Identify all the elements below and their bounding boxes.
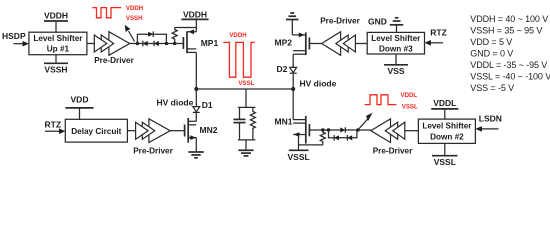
node junction rail left [194,87,198,91]
waveform switch node VDDH/VSSL (red) [223,42,255,77]
node junction at network input [136,42,139,45]
diode series 1 (main line, points left) [143,41,148,46]
svg-text:MN2: MN2 [200,125,218,135]
svg-text:Delay Circuit: Delay Circuit [71,127,121,136]
wire resistor return to source [299,144,323,146]
level shifter U2 box [418,119,475,143]
level shifter U3 box [367,32,424,54]
wire MN1 source to VSSL [298,135,300,151]
svg-text:Pre-Driver: Pre-Driver [373,147,413,156]
node junction at network output (bottom) [356,128,359,131]
resistor MN1 gate pull-down [320,130,325,145]
svg-text:VSSL: VSSL [238,80,254,87]
svg-text:MP1: MP1 [201,38,219,48]
wire rail to MN1 drain [292,89,294,120]
node junction at network output [165,42,168,45]
svg-text:VDDL = -35 ~ -95 V: VDDL = -35 ~ -95 V [470,60,547,70]
wire MP2 drain to D2 [292,54,294,67]
svg-text:LSDN: LSDN [479,113,502,123]
transistor MN2 (NMOS) [184,125,186,137]
ground symbol above MP2 [286,19,299,21]
transistor MN1 (NMOS, mirrored) [293,119,306,121]
power VSSL tap below U2 [444,143,446,155]
ground symbol below MN2 [188,151,204,153]
wire U1 output to pre-driver [87,43,95,45]
wire MP2 gate to pre-driver [309,43,321,45]
level shifter U1 box [29,32,87,55]
buffer pre-driver MN2 large [149,119,170,143]
node junction at network input (bottom) [327,128,330,131]
svg-text:VDDH: VDDH [126,5,143,12]
svg-text:Up #1: Up #1 [47,45,70,54]
node junction rail right [291,87,295,91]
svg-text:VSSH: VSSH [126,15,143,22]
wire diode lower branch [329,130,357,138]
svg-text:VDDH = 40 ~ 100 V: VDDH = 40 ~ 100 V [470,14,548,24]
wire arrow pointing to waveform [129,31,135,42]
svg-text:Pre-Driver: Pre-Driver [133,147,173,156]
buffer pre-driver stage 2 [101,35,114,52]
svg-text:D1: D1 [202,100,213,110]
svg-text:Pre-Driver: Pre-Driver [320,17,360,26]
svg-text:HV diode: HV diode [157,97,194,107]
waveform gate signal VDDL/VSSL (red) [365,95,397,105]
svg-text:VSSL = -40 ~ -100 V: VSSL = -40 ~ -100 V [470,72,550,82]
diode series 2 (main line, points left) [154,41,159,46]
wire RTZ arrow into U3 [430,42,444,44]
buffer pre-driver MN2 small [136,122,149,139]
svg-text:VDDH: VDDH [183,10,207,20]
svg-text:RTZ: RTZ [430,27,447,37]
svg-text:VDDH: VDDH [44,11,68,21]
svg-text:VDDL: VDDL [401,92,418,99]
node junction MN1 gate resistor [321,128,324,131]
svg-text:VSSL: VSSL [287,152,309,162]
svg-text:Pre-Driver: Pre-Driver [94,56,134,65]
buffer pre-driver MP2 large [322,32,341,56]
svg-text:D2: D2 [277,64,288,74]
wire MP1 drain to output rail [195,52,197,89]
svg-text:MP2: MP2 [275,37,293,47]
wire MN1 gate line [309,129,370,131]
node legend voltage definitions [470,14,550,93]
wire diode bypass branch (top) [137,34,166,43]
wire RC to ground [245,140,247,150]
wire VDDH to MP1 source [195,19,197,31]
wire MN2 source to ground [195,138,197,152]
diode lower branch 1 (points left) [334,135,339,140]
wire pre-driver to U2 [405,130,419,132]
wire delay to pre-driver [127,130,136,132]
node junction at gate resistor [173,42,176,45]
power VSS tap below U3 [395,54,397,65]
buffer pre-driver MP2 small [343,35,355,52]
resistor MP1 gate pull-up [172,28,177,44]
svg-text:Down #2: Down #2 [430,132,464,141]
svg-text:Level Shifter: Level Shifter [422,122,472,131]
buffer pre-driver MN1 mid [385,122,397,139]
diode D1 (HV diode) [193,107,200,112]
wire LSDN arrow into U2 [481,128,499,130]
delay circuit box [65,119,127,142]
ground symbol above U3 [396,25,398,33]
buffer pre-driver stage 1 [94,35,107,52]
svg-text:GND: GND [368,17,387,27]
waveform gate signal VDDH/VSSH (red) [92,8,121,18]
ground symbol below RC load [238,149,253,151]
wire rail to RC load [245,89,247,107]
capacitor load (left branch) [238,107,256,139]
wire ground to MP2 source [291,20,293,35]
svg-text:VSSL: VSSL [434,157,456,167]
diode lower branch 2 (points left) [347,135,352,140]
svg-text:VSS: VSS [387,66,404,76]
buffer pre-driver stage 3 (large, top-left) [109,32,130,56]
svg-text:VDDL: VDDL [433,98,456,108]
power VSSL tap below MN1 [289,149,309,151]
wire rail to D1 [195,89,197,107]
diode main line (points right) [340,127,345,132]
svg-text:MN1: MN1 [275,117,293,127]
power VSSH tap below U1 [55,55,57,64]
wire output rail [196,88,293,90]
svg-text:Down #3: Down #3 [379,45,413,54]
svg-text:HSDP: HSDP [2,31,26,41]
svg-text:Level Shifter: Level Shifter [371,34,421,43]
wire RTZ arrow into delay circuit [45,130,61,132]
svg-text:VSSH: VSSH [44,65,67,75]
wire HSDP input arrow [14,43,25,45]
buffer pre-driver MN1 large [371,119,391,143]
svg-text:VDDH: VDDH [229,32,246,39]
svg-text:VSSH = 35 ~ 95 V: VSSH = 35 ~ 95 V [470,26,542,36]
svg-text:Level Shifter: Level Shifter [33,34,83,43]
svg-text:HV diode: HV diode [300,79,337,89]
wire pre-driver to U3 [355,43,367,45]
transistor MP1 (PMOS) [187,31,196,33]
wire pre-driver to diode network [130,43,183,45]
svg-text:VSSL: VSSL [402,104,418,111]
resistor load (right branch) [250,107,255,139]
buffer pre-driver MN1 small [393,122,405,139]
svg-text:VDD = 5 V: VDD = 5 V [470,37,512,47]
diode speed-up (top branch, points right) [148,32,153,37]
wire pre-driver to MN2 gate [170,130,184,132]
diode D2 (HV diode) [290,67,297,72]
svg-text:GND = 0 V: GND = 0 V [470,49,513,59]
transistor MP2 (PMOS, mirrored) [292,34,306,36]
svg-text:VSS = -5 V: VSS = -5 V [470,83,514,93]
svg-text:VDD: VDD [71,95,89,105]
buffer pre-driver MN2 mid [142,122,155,139]
buffer pre-driver MP2 mid [336,35,348,52]
svg-text:RTZ: RTZ [45,120,62,130]
wire resistor top to VDDH drop [175,27,197,29]
wire arrow pointing to waveform (bottom) [358,118,369,130]
